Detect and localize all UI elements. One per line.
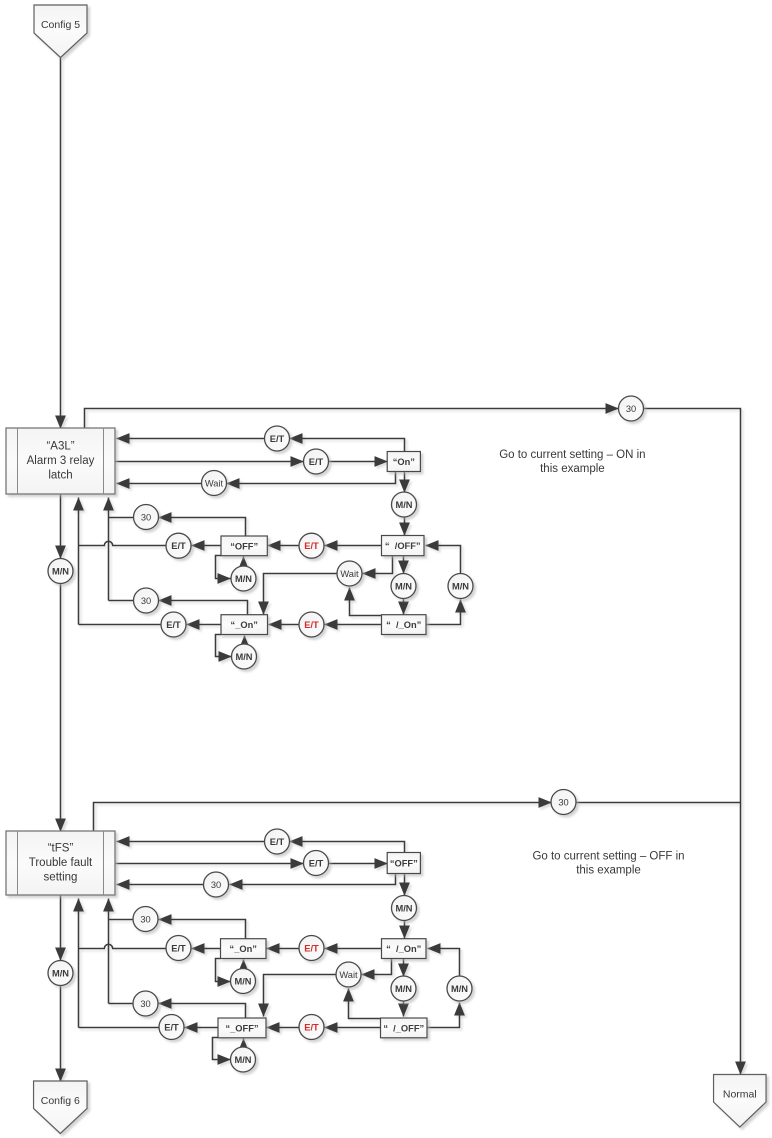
svg-text:“_On”: “_On” <box>231 620 258 630</box>
wire _On2 top to 30 c1b <box>159 920 246 940</box>
wire E/T c3 to V2 (with line jump) <box>79 541 167 545</box>
wire red E/T r2b to _OFF2 <box>267 1027 300 1029</box>
key E/T c3 <box>166 533 191 558</box>
key Wait c2 <box>337 561 362 586</box>
wire M/N to Config6 <box>60 986 62 1082</box>
svg-text:30: 30 <box>211 880 221 890</box>
svg-text:M/N: M/N <box>395 582 412 592</box>
svg-text:“OFF”: “OFF” <box>230 541 258 551</box>
wire /_On to M/N c5 <box>427 600 461 625</box>
timer 30 upper <box>619 396 644 421</box>
wire E/T c1b to tFS <box>117 841 265 843</box>
svg-text:Alarm 3 relay: Alarm 3 relay <box>27 455 95 467</box>
process tFS (predefined process) <box>6 831 115 895</box>
wire _OFF2 to M/N c4b loop <box>213 1038 231 1060</box>
wire /_OFF2 to M/N c5b <box>428 1003 460 1028</box>
svg-text:Go to current setting – ON in: Go to current setting – ON in <box>499 449 645 461</box>
timer 30 lower <box>551 790 576 815</box>
wire V3 up to A3L bottom <box>108 498 110 601</box>
wire Wait c2 to _On <box>264 574 338 615</box>
key M/N c4b <box>231 1047 256 1072</box>
wire E/T c2 to On <box>329 461 388 463</box>
state On <box>387 452 420 472</box>
wire OFF2 to M/N c1b <box>404 874 406 896</box>
state /OFF <box>382 536 425 556</box>
svg-text:Trouble fault: Trouble fault <box>29 857 93 869</box>
svg-text:“ /_On”: “ /_On” <box>386 944 421 954</box>
svg-text:E/T: E/T <box>164 1023 179 1033</box>
wire E/T c4b to V2b <box>79 1027 160 1029</box>
svg-text:M/N: M/N <box>234 1055 251 1065</box>
state /_OFF2 <box>381 1018 428 1038</box>
svg-text:M/N: M/N <box>451 984 468 994</box>
key E/T c1 <box>265 426 290 451</box>
svg-text:30: 30 <box>558 798 568 808</box>
state /_On <box>382 615 427 635</box>
wire V3b up to tFS bottom <box>108 899 110 1004</box>
key M/N c4 <box>232 644 257 669</box>
key Wait c1 <box>202 471 227 496</box>
svg-text:Wait: Wait <box>205 479 224 489</box>
wire /_OFF2 to red E/T r2b <box>325 1027 381 1029</box>
wire On to E/T c1 <box>290 439 405 452</box>
svg-text:“tFS”: “tFS” <box>48 843 74 855</box>
key M/N c1b <box>392 896 417 921</box>
svg-text:Config 6: Config 6 <box>41 1095 80 1107</box>
svg-text:“_OFF”: “_OFF” <box>225 1023 258 1033</box>
key E/T c2 <box>304 449 329 474</box>
wire M/N c5b to /_On2 <box>428 949 460 977</box>
wire OFF2 to 30 c0b <box>230 874 396 885</box>
wire M/N c5 to /OFF <box>426 546 461 574</box>
wire A3L top to 30 timeout <box>85 409 619 429</box>
key E/T c2b <box>304 851 329 876</box>
timer 30 c2b <box>133 991 158 1016</box>
wire A3L to M/N <box>60 495 62 559</box>
svg-text:E/T: E/T <box>270 434 285 444</box>
key red E/T r2b <box>299 1015 324 1040</box>
key Wait cb <box>336 962 361 987</box>
svg-text:E/T: E/T <box>304 944 319 954</box>
svg-text:M/N: M/N <box>452 582 469 592</box>
wire 30 to spine <box>577 802 741 804</box>
timer 30 c1b <box>133 907 158 932</box>
svg-text:“ /OFF”: “ /OFF” <box>385 541 421 551</box>
wire Wait c1 to A3L <box>117 483 202 485</box>
svg-text:Config 5: Config 5 <box>41 19 80 31</box>
wire E/T c4 to V2 <box>79 624 162 626</box>
wire Config5 to A3L <box>60 58 62 429</box>
wire OFF top to 30 c1 <box>159 518 246 537</box>
svg-text:E/T: E/T <box>171 541 186 551</box>
key red E/T r1b <box>299 936 324 961</box>
wire OFF to E/T c3 <box>192 545 222 547</box>
svg-text:“ /_On”: “ /_On” <box>386 620 421 630</box>
svg-text:E/T: E/T <box>309 457 324 467</box>
svg-text:Wait: Wait <box>340 569 359 579</box>
wire _On2 to E/T c3b <box>192 948 221 950</box>
process A3L (predefined process) <box>6 428 115 494</box>
wire OFF to M/N c2 loop <box>216 556 231 579</box>
svg-text:E/T: E/T <box>304 620 319 630</box>
wire _On top to 30 c2 <box>159 601 248 616</box>
wire V2 up to A3L bottom <box>78 498 80 625</box>
key E/T c4 <box>161 612 186 637</box>
svg-text:M/N: M/N <box>395 500 412 510</box>
wire tFS to M/N lower <box>60 896 62 961</box>
svg-text:Wait: Wait <box>339 970 358 980</box>
wire /OFF to red E/T r1 <box>325 545 382 547</box>
svg-text:this example: this example <box>576 864 641 876</box>
svg-text:E/T: E/T <box>309 859 324 869</box>
off-page connector Config 5 <box>34 5 87 58</box>
svg-text:30: 30 <box>140 999 150 1009</box>
wire On to M/N c1 <box>404 472 406 493</box>
key M/N c2 <box>231 566 256 591</box>
wire red E/T r1 to OFF <box>268 545 300 547</box>
wire /_On2 to M/N c3b <box>403 959 405 977</box>
key M/N c2b <box>231 969 256 994</box>
svg-text:M/N: M/N <box>52 969 69 979</box>
key E/T c4b <box>159 1015 184 1040</box>
svg-text:30: 30 <box>141 513 151 523</box>
state OFF <box>221 536 267 556</box>
wire /OFF to M/N c3 <box>403 556 405 574</box>
wire tFS to E/T c2b <box>116 863 304 865</box>
wire E/T c2b to OFF2 <box>329 863 388 865</box>
key M/N c5b <box>447 976 472 1001</box>
wire 30 c2b to V3b <box>109 1003 134 1005</box>
svg-text:this example: this example <box>540 463 605 475</box>
svg-text:Go to current setting – OFF in: Go to current setting – OFF in <box>532 851 684 863</box>
wire /_On2 to Wait cb <box>362 959 392 975</box>
svg-text:“ /_OFF”: “ /_OFF” <box>383 1023 424 1033</box>
wire /_On to red E/T r2 <box>325 624 382 626</box>
timer 30 c1 <box>134 505 159 530</box>
wire OFF2 to E/T c1b <box>290 842 405 853</box>
wire V2b up to tFS bottom <box>78 899 80 1028</box>
wire 30 to Normal spine <box>644 409 741 1075</box>
wire E/T c3b to V2b (with line jump) <box>79 944 167 948</box>
wire red E/T r2 to _On <box>269 624 300 626</box>
key M/N c1 <box>392 492 417 517</box>
svg-text:M/N: M/N <box>395 984 412 994</box>
state _On <box>221 615 268 635</box>
wire M/N c1b to /_On2 <box>404 921 406 939</box>
wire _On to E/T c4 <box>187 624 222 626</box>
wire E/T c1 to A3L <box>117 438 265 440</box>
wire M/N c3 to /_On <box>403 599 405 615</box>
timer 30 c0b <box>204 872 229 897</box>
svg-text:M/N: M/N <box>235 574 252 584</box>
wire 30 c1 to V3 <box>109 517 134 519</box>
wire tFS top to 30 timeout <box>94 803 552 832</box>
off-page connector Normal <box>714 1075 767 1128</box>
wire M/N c4 to _On <box>244 636 246 645</box>
key M/N spine lower <box>48 961 73 986</box>
wire _On2 to M/N c2b loop <box>216 959 231 982</box>
key M/N c5 <box>448 574 473 599</box>
svg-text:latch: latch <box>48 470 72 482</box>
svg-text:“A3L”: “A3L” <box>46 441 74 453</box>
off-page connector Config 6 <box>34 1081 88 1134</box>
wire A3L to E/T c2 <box>116 461 304 463</box>
svg-text:setting: setting <box>44 872 78 884</box>
svg-text:E/T: E/T <box>171 944 186 954</box>
wire M/N c2 to OFF <box>243 557 245 567</box>
timer 30 c2 <box>134 588 159 613</box>
svg-text:E/T: E/T <box>166 620 181 630</box>
wire /_On to Wait c2 <box>350 588 382 616</box>
svg-text:E/T: E/T <box>270 837 285 847</box>
key E/T c1b <box>265 829 290 854</box>
svg-text:E/T: E/T <box>304 1023 319 1033</box>
svg-text:30: 30 <box>626 404 636 414</box>
svg-text:M/N: M/N <box>395 904 412 914</box>
wire M/N c3b to /_OFF2 <box>403 1002 405 1017</box>
state OFF2 <box>387 853 420 874</box>
state _On2 <box>221 939 267 959</box>
svg-text:M/N: M/N <box>235 652 252 662</box>
wire _OFF2 top to 30 c2b <box>159 1004 246 1019</box>
key M/N c3 <box>391 574 416 599</box>
svg-text:Normal: Normal <box>723 1088 757 1100</box>
svg-text:“On”: “On” <box>393 457 415 467</box>
wire _OFF2 to E/T c4b <box>185 1027 219 1029</box>
svg-text:M/N: M/N <box>52 567 69 577</box>
svg-text:“OFF”: “OFF” <box>390 859 418 869</box>
key M/N c3b <box>391 976 416 1001</box>
key red E/T r1 <box>299 533 324 558</box>
wire /_OFF2 to Wait cb <box>349 989 381 1019</box>
wire _On to M/N c4 loop <box>216 635 232 657</box>
wire M/N c2b to _On2 <box>243 960 245 969</box>
state /_On2 <box>382 939 427 959</box>
wire /_On2 to red E/T r1b <box>325 948 382 950</box>
state _OFF2 <box>218 1018 266 1038</box>
svg-text:“_On”: “_On” <box>230 944 257 954</box>
wire Wait cb to _OFF2 <box>264 975 337 1017</box>
wire M/N c4b to _OFF2 <box>243 1039 245 1048</box>
wire 30 c0b to tFS <box>117 884 204 886</box>
svg-text:30: 30 <box>141 596 151 606</box>
wire M/N c1 to /OFF <box>404 518 406 536</box>
wire 30 c2 to V3 <box>109 600 134 602</box>
svg-text:30: 30 <box>140 915 150 925</box>
wire M/N to tFS <box>60 584 62 832</box>
key M/N spine upper <box>48 559 73 584</box>
wire red E/T r1b to _On2 <box>267 948 300 950</box>
wire /OFF to Wait c2 <box>363 556 393 574</box>
key red E/T r2 <box>299 612 324 637</box>
key E/T c3b <box>166 936 191 961</box>
svg-text:M/N: M/N <box>234 977 251 987</box>
svg-text:E/T: E/T <box>304 541 319 551</box>
wire 30 c1b to V3b <box>109 919 134 921</box>
wire On to Wait c1 <box>227 472 396 484</box>
